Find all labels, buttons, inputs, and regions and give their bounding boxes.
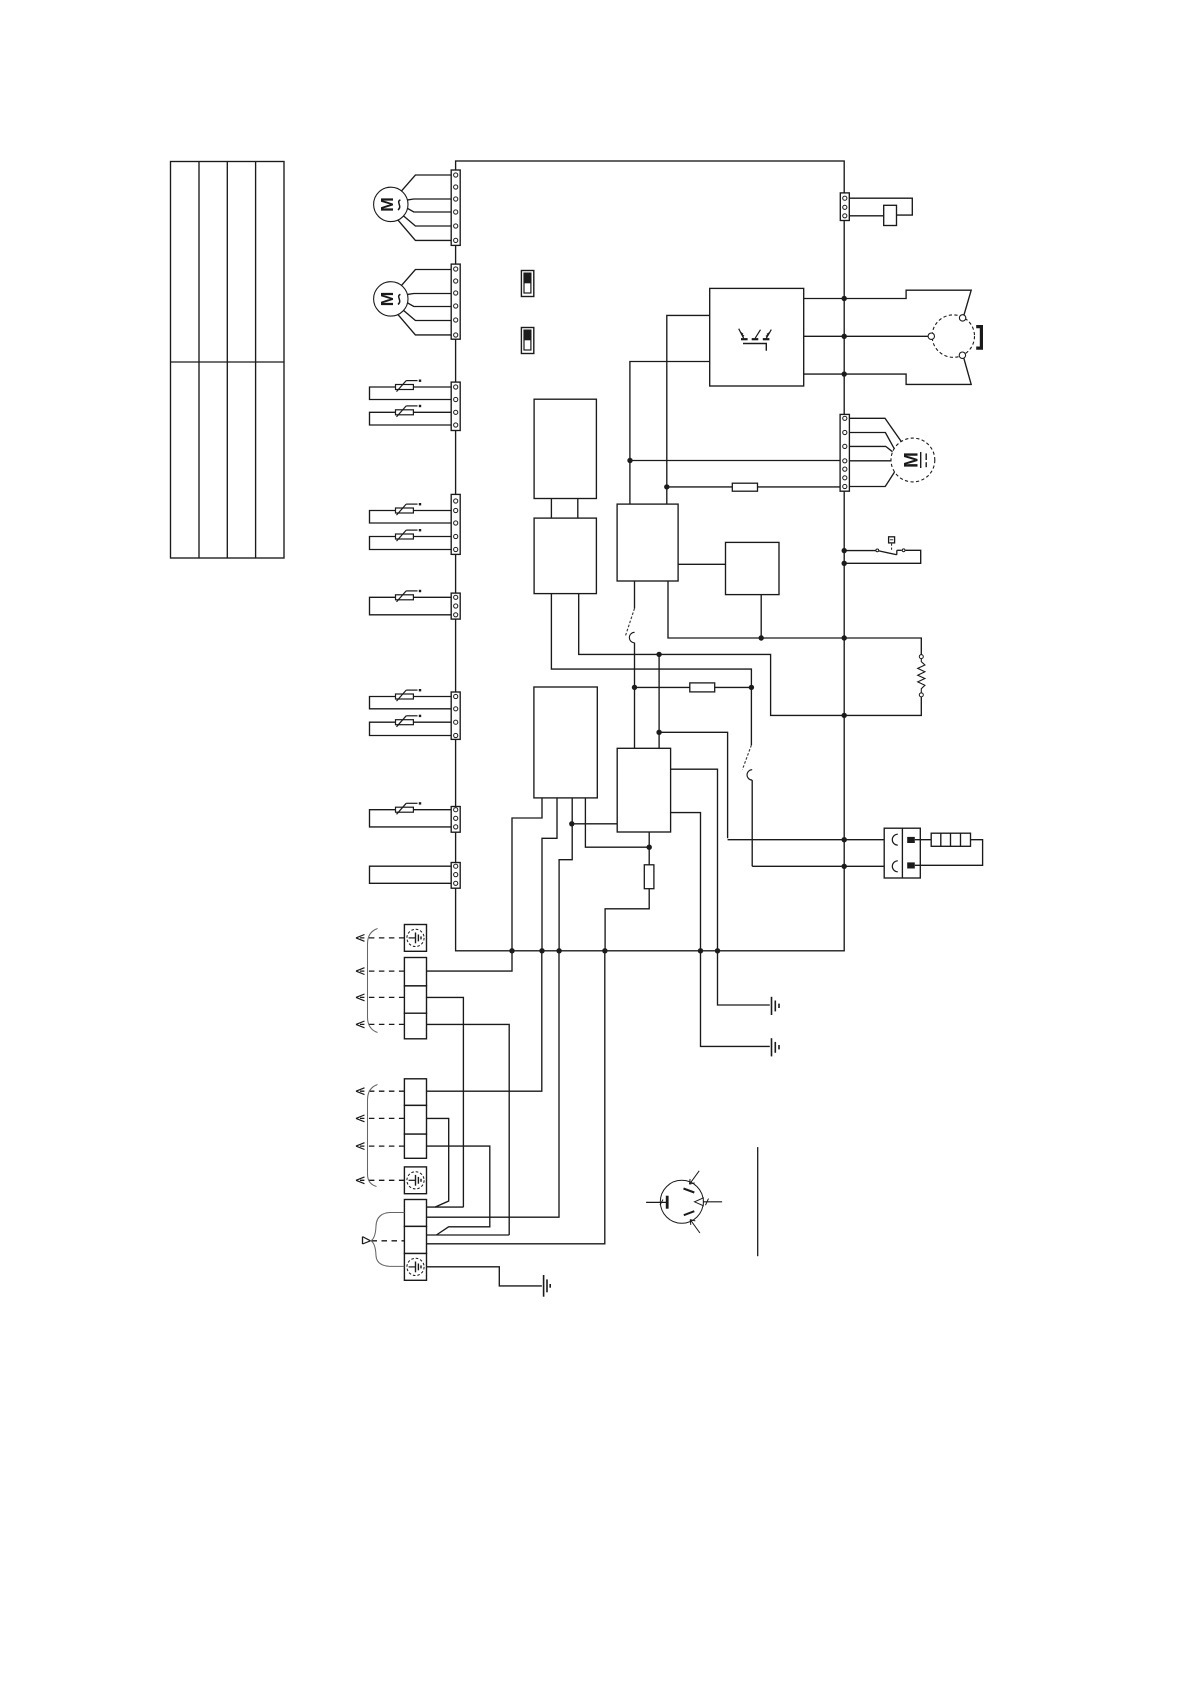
wire row to plug pin1 [728, 839, 885, 841]
connector X9 [840, 193, 849, 221]
wire A4 pin to ground GND1 [671, 769, 770, 1005]
module A1/A2 link [550, 499, 552, 519]
wire X14.2 pin [427, 1234, 510, 1236]
wire X14.1 long [427, 951, 560, 1217]
NTC sensor R4 [396, 534, 414, 539]
connector X1 (fan motor M1) [451, 170, 460, 245]
wire bus to solenoid [844, 638, 921, 655]
switch S1 (relay contact) [634, 581, 636, 608]
wire bus to thermostat [844, 550, 876, 552]
fuse F3 [635, 686, 690, 688]
wire row1 branch to A4 [658, 654, 660, 748]
sensor B1 electrode bottom [684, 1211, 695, 1215]
fan motor M1 (AC) wires [402, 175, 452, 191]
thermostat F2 contact [876, 549, 879, 552]
slide switch S3 [521, 271, 533, 297]
terminal X12.1 [404, 958, 426, 986]
partition line [757, 1147, 759, 1256]
wire X13.1 to board [427, 951, 542, 1091]
NTC sensor R5 cable loop [370, 597, 452, 615]
wire A3 stub1 [512, 798, 542, 951]
dashed lead X12.2 [360, 996, 404, 998]
connector X7 (NTC sensor) [451, 807, 460, 833]
dashed lead X13.1 [360, 1090, 404, 1092]
wire K2 bottom [760, 595, 762, 638]
wire A2 pin to row2 [551, 594, 751, 688]
mains cord filter [915, 839, 931, 841]
wire X12.3 down [427, 1024, 510, 1235]
wire branch to mains plug [659, 732, 728, 838]
NTC sensor R7 cable loop [370, 722, 452, 735]
sensor B1 lead left [646, 1201, 666, 1203]
terminal X13.3 [404, 1134, 426, 1158]
sensor B1 arrow top [690, 1171, 700, 1184]
fuse F1 [667, 486, 733, 488]
NTC sensor R7 [396, 720, 414, 725]
connector X2 (fan motor M2) [451, 264, 460, 339]
dashed lead PE2 [360, 1179, 404, 1181]
wire heater to lamp middle [804, 335, 928, 337]
wire heater to lamp top [804, 290, 972, 315]
ground terminal PE2 [404, 1167, 426, 1194]
connector X10 [840, 414, 849, 491]
sensor B1 [660, 1180, 703, 1223]
connector X4 (NTC sensors) [451, 494, 460, 554]
wire heater pin2 to relay K1 [630, 362, 710, 505]
dashed lead X13.2 [360, 1117, 404, 1119]
module A1 (upper left block) [534, 399, 596, 498]
wire solenoid return [844, 697, 921, 716]
relay K2 [726, 542, 780, 594]
thermostat sensor [889, 537, 895, 543]
ground terminal PE3 [404, 1254, 426, 1281]
NTC sensor R8 [396, 807, 414, 812]
wire A3 stub2 [542, 798, 557, 951]
probe loop (no sensor) [370, 866, 452, 883]
cable/legend table [171, 162, 285, 559]
wires X10 to motor M3 [849, 418, 901, 441]
connector X5 (NTC sensor) [451, 593, 460, 619]
relay K1 [617, 504, 678, 581]
heater element symbols [739, 329, 772, 340]
NTC sensor R6 [396, 694, 414, 699]
interlock switch S5 [884, 205, 897, 225]
wire X12.1 to board [427, 951, 513, 971]
ground GND3 [543, 1275, 545, 1297]
dashed lead X13.3 [360, 1145, 404, 1147]
sensor B1 electrode top [684, 1189, 695, 1193]
svg-text:M: M [901, 452, 922, 468]
NTC sensor R3 [396, 508, 414, 513]
wire X13.2 jumper [427, 1118, 449, 1207]
terminal X13.1 [404, 1079, 426, 1106]
cable bundle arc 2 [368, 1085, 378, 1187]
wire thermostat return [844, 550, 921, 563]
wire X13.3 jumper [427, 1146, 490, 1235]
fan motor M2 (AC) wires [402, 270, 452, 286]
connector X6 (NTC sensors) [451, 692, 460, 739]
solenoid L1 [919, 655, 923, 659]
NTC sensor R6 cable loop [370, 697, 452, 709]
NTC sensor R1 [396, 385, 414, 390]
antenna lead (coax inner) [362, 1237, 364, 1244]
wire K1-K2 [678, 563, 725, 565]
wire X9 pin1 [849, 198, 912, 215]
NTC sensor R1 cable loop [370, 387, 452, 400]
NTC sensor R2 cable loop [370, 412, 452, 425]
ground terminal PE1 [404, 925, 426, 952]
wire stub3 branch to A4 [572, 823, 617, 825]
fuse F4 [648, 847, 650, 865]
svg-text:M: M [377, 197, 397, 212]
wire A2 pin to row1 [579, 594, 845, 716]
dashed lead PE1 [360, 937, 404, 939]
dashed lead X12.3 [360, 1023, 404, 1025]
lamp reflector bracket [976, 327, 981, 349]
NTC sensor R8 cable loop [370, 810, 452, 827]
NTC sensor R4 cable loop [370, 537, 452, 550]
fan motor M2 (AC) [374, 282, 408, 316]
NTC sensor R3 cable loop [370, 511, 452, 524]
ground GND2 [771, 1038, 773, 1056]
wire PE3 to earth [427, 1267, 542, 1286]
wire row to connector X10 pin4 [630, 460, 840, 462]
wire A3 stub3 [559, 798, 572, 951]
wire X9 pin3 [849, 215, 883, 217]
heater module E1 [710, 288, 804, 386]
wire heater to lamp bottom [804, 357, 972, 384]
NTC sensor R2 [396, 410, 414, 415]
wire cord loop [915, 840, 983, 866]
wire heater pin1 to relay K1 [667, 315, 710, 504]
wire X14.1 pin [427, 1206, 464, 1208]
terminal X12.2 [404, 986, 426, 1013]
ground GND1 [771, 997, 773, 1015]
coax shield brace [371, 1213, 404, 1267]
terminal X14.1 [404, 1200, 426, 1227]
wire S2 to plug pin2 [752, 865, 884, 867]
main control board outline [456, 161, 845, 951]
wire A4 pin to ground GND2 [671, 813, 770, 1047]
switch S2 (door switch) [750, 687, 752, 745]
slide switch S4 [521, 328, 533, 354]
NTC sensor R5 [396, 595, 414, 600]
wire A4 bottom pin [648, 832, 650, 847]
wire K1 bottom to solenoid row [668, 581, 844, 638]
mains plug X11 [884, 828, 920, 878]
cable bundle arc [368, 929, 378, 1033]
connector X3 (NTC sensors) [451, 382, 460, 430]
connector X8 (probe loop) [451, 863, 460, 889]
dashed lead X12.1 [360, 970, 404, 972]
terminal X13.2 [404, 1105, 426, 1134]
module A3 (lower left block) [534, 687, 597, 798]
fan motor M1 (AC) [374, 187, 408, 221]
oven lamp E2 [932, 315, 974, 357]
wire A3 stub4 [585, 798, 649, 847]
sensor B1 lead right [703, 1201, 722, 1203]
module A4 (control block) [617, 748, 670, 832]
svg-text:M: M [377, 292, 397, 307]
module A2 (power block) [534, 518, 596, 594]
junction dots [509, 296, 847, 954]
wire X14.2 long [427, 951, 605, 1244]
wire X12.2 down [427, 997, 464, 1207]
motor M3 (DC) [891, 438, 935, 482]
terminal X14.2 [404, 1226, 426, 1253]
terminal X12.3 [404, 1013, 426, 1039]
sensor B1 arrow bottom [690, 1220, 700, 1233]
